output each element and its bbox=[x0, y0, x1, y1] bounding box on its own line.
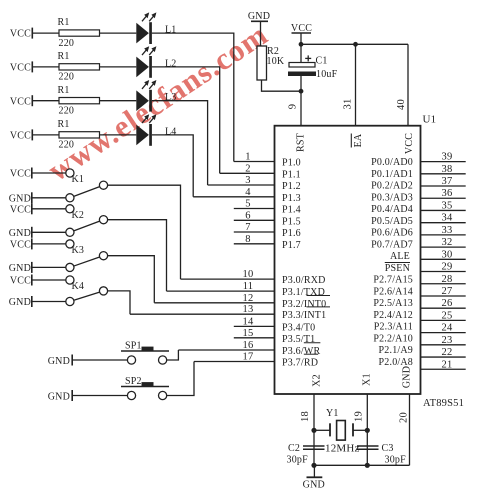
svg-text:P2.4/A12: P2.4/A12 bbox=[373, 310, 413, 321]
svg-text:P2.3/A11: P2.3/A11 bbox=[374, 322, 413, 333]
svg-text:GND: GND bbox=[9, 193, 31, 204]
pin 8 (P1.7) bbox=[234, 234, 301, 251]
svg-text:P3.4/T0: P3.4/T0 bbox=[282, 322, 315, 333]
wire SP2 to pin 17 bbox=[167, 362, 194, 396]
pin 30 (ALE) bbox=[390, 249, 466, 262]
pin 28 (P2.7/A15) bbox=[373, 274, 465, 286]
svg-text:GND: GND bbox=[401, 366, 412, 388]
wire K1 to pin 10 bbox=[108, 185, 181, 279]
wire K3 to pin 12 bbox=[108, 256, 155, 303]
svg-text:VCC: VCC bbox=[10, 240, 31, 251]
svg-text:9: 9 bbox=[288, 104, 299, 109]
svg-text:VCC: VCC bbox=[404, 133, 415, 154]
svg-text:R1: R1 bbox=[58, 17, 70, 28]
push button SP2 bbox=[121, 382, 169, 400]
svg-text:5: 5 bbox=[245, 199, 250, 210]
wire GND to K4 bbox=[33, 301, 66, 303]
VCC symbol (LED row 1) bbox=[10, 28, 32, 40]
wire LED L1 to pin 1 bbox=[152, 33, 234, 161]
VCC symbol (LED row 4) bbox=[10, 129, 32, 141]
LED L1 bbox=[136, 12, 156, 44]
svg-text:1: 1 bbox=[245, 152, 250, 163]
svg-text:SP1: SP1 bbox=[125, 341, 142, 352]
wire EA pin 31 bbox=[355, 44, 357, 125]
pin 13 (P3.3/INT1) bbox=[130, 304, 330, 321]
svg-text:25: 25 bbox=[442, 310, 453, 321]
svg-text:29: 29 bbox=[442, 262, 453, 273]
VCC symbol (LED row 2) bbox=[10, 61, 32, 73]
svg-text:X1: X1 bbox=[361, 373, 372, 386]
pin 23 (P2.2/A10) bbox=[373, 333, 465, 345]
wire R1 to LED L1 bbox=[100, 32, 137, 34]
wire VCC to K2 bbox=[33, 208, 66, 210]
pin 6 (P1.5) bbox=[234, 210, 301, 227]
svg-text:GND: GND bbox=[48, 392, 70, 403]
junction at EA branch bbox=[353, 42, 358, 47]
svg-text:16: 16 bbox=[243, 340, 254, 351]
junction C3 on rail bbox=[365, 463, 370, 468]
svg-text:38: 38 bbox=[442, 164, 453, 175]
svg-text:C2: C2 bbox=[288, 443, 300, 454]
svg-text:3: 3 bbox=[245, 175, 250, 186]
svg-text:10uF: 10uF bbox=[316, 69, 338, 80]
svg-text:P3.0/RXD: P3.0/RXD bbox=[282, 275, 326, 286]
capacitor C1 bbox=[288, 55, 316, 76]
GND symbol (K3) bbox=[9, 262, 32, 274]
wire X1 pin 19 bbox=[366, 394, 368, 465]
svg-text:VCC: VCC bbox=[10, 131, 31, 142]
svg-text:GND: GND bbox=[9, 297, 31, 308]
svg-text:P3.7/RD: P3.7/RD bbox=[282, 358, 318, 369]
port name EA with overline bbox=[351, 133, 364, 147]
resistor R1 (row 1) bbox=[59, 30, 100, 36]
wire VCC to R1 (row 4) bbox=[33, 134, 59, 136]
pin 3 (P1.2) bbox=[208, 175, 301, 192]
svg-text:33: 33 bbox=[442, 225, 453, 236]
pin 35 (P0.4/AD4) bbox=[371, 200, 466, 215]
pin 36 (P0.3/AD3) bbox=[371, 188, 466, 203]
microcontroller U1 AT89S51 body bbox=[275, 126, 421, 394]
svg-text:P2.2/A10: P2.2/A10 bbox=[373, 333, 413, 344]
LED L2 bbox=[136, 46, 156, 78]
wire C1 to RST pin 9 bbox=[300, 76, 302, 126]
wire K4 to pin 13 bbox=[108, 291, 130, 314]
svg-text:27: 27 bbox=[442, 286, 453, 297]
svg-text:R2: R2 bbox=[267, 46, 279, 57]
pin 7 (P1.6) bbox=[234, 222, 301, 239]
svg-text:P0.3/AD3: P0.3/AD3 bbox=[371, 192, 413, 203]
VCC rail to pins 31 and 40 bbox=[301, 43, 408, 45]
resistor R1 (row 4) bbox=[59, 132, 100, 138]
pin 34 (P0.5/AD5) bbox=[371, 213, 466, 227]
wire VCC to R1 (row 1) bbox=[33, 32, 59, 34]
svg-text:VCC: VCC bbox=[10, 204, 31, 215]
pin 32 (P0.7/AD7) bbox=[371, 237, 466, 250]
svg-text:L1: L1 bbox=[165, 25, 177, 36]
wire X2 pin 18 bbox=[313, 394, 315, 465]
pin 15 (P3.5/T1) bbox=[234, 328, 316, 345]
wire GND to SP1 bbox=[73, 359, 127, 361]
wire GND to SP2 bbox=[73, 395, 127, 397]
svg-text:K2: K2 bbox=[72, 210, 85, 221]
svg-text:GND: GND bbox=[9, 228, 31, 239]
pin 29 (PSEN) bbox=[385, 262, 466, 274]
svg-text:36: 36 bbox=[442, 188, 453, 199]
svg-text:18: 18 bbox=[300, 411, 311, 422]
pin 24 (P2.3/A11) bbox=[374, 322, 466, 334]
svg-text:220: 220 bbox=[59, 38, 75, 49]
svg-text:EA: EA bbox=[353, 133, 364, 147]
svg-text:P3.2/INT0: P3.2/INT0 bbox=[282, 299, 326, 310]
pin 21 (P2.0/A8) bbox=[379, 357, 466, 370]
junction X1 at crystal bbox=[365, 428, 370, 433]
svg-text:32: 32 bbox=[442, 237, 453, 248]
watermark www.elecfans.com bbox=[41, 17, 274, 188]
svg-text:11: 11 bbox=[243, 281, 254, 292]
svg-text:VCC: VCC bbox=[10, 276, 31, 287]
pin 4 (P1.3) bbox=[193, 187, 301, 204]
svg-text:P1.0: P1.0 bbox=[282, 158, 301, 169]
svg-text:P2.5/A13: P2.5/A13 bbox=[373, 298, 413, 309]
svg-text:8: 8 bbox=[245, 234, 250, 245]
VCC symbol (K1) bbox=[10, 168, 32, 180]
svg-text:P0.0/AD0: P0.0/AD0 bbox=[371, 157, 413, 168]
svg-text:10K: 10K bbox=[267, 56, 285, 67]
GND symbol (K2) bbox=[9, 227, 32, 239]
junction C2 on rail bbox=[311, 463, 316, 468]
svg-text:39: 39 bbox=[442, 152, 453, 163]
svg-text:35: 35 bbox=[442, 200, 453, 211]
pin 17 (P3.7/RD) bbox=[194, 352, 318, 369]
svg-text:P0.5/AD5: P0.5/AD5 bbox=[371, 216, 413, 227]
svg-text:30pF: 30pF bbox=[385, 455, 407, 466]
svg-text:P2.1/A9: P2.1/A9 bbox=[379, 345, 413, 356]
wire VCC to R1 (row 2) bbox=[33, 66, 59, 68]
svg-text:P0.2/AD2: P0.2/AD2 bbox=[371, 181, 413, 192]
svg-text:VCC: VCC bbox=[10, 96, 31, 107]
svg-text:K4: K4 bbox=[72, 281, 85, 292]
svg-text:P3.3/INT1: P3.3/INT1 bbox=[282, 310, 326, 321]
GND symbol (K4) bbox=[9, 296, 32, 308]
svg-text:VCC: VCC bbox=[10, 63, 31, 74]
svg-text:R1: R1 bbox=[58, 119, 70, 130]
svg-text:L4: L4 bbox=[165, 126, 177, 137]
svg-text:34: 34 bbox=[442, 213, 453, 224]
svg-text:K1: K1 bbox=[72, 174, 85, 185]
svg-text:Y1: Y1 bbox=[326, 408, 339, 419]
ground symbol (bottom) bbox=[303, 465, 325, 490]
svg-text:P2.0/A8: P2.0/A8 bbox=[379, 357, 413, 368]
svg-text:P0.7/AD7: P0.7/AD7 bbox=[371, 239, 413, 250]
svg-text:P0.1/AD1: P0.1/AD1 bbox=[371, 169, 413, 180]
wire R2 bottom to RST node bbox=[262, 80, 302, 91]
pin 5 (P1.4) bbox=[234, 199, 301, 216]
svg-text:RST: RST bbox=[296, 133, 307, 152]
svg-text:GND: GND bbox=[48, 356, 70, 367]
svg-text:220: 220 bbox=[59, 72, 75, 83]
svg-text:220: 220 bbox=[59, 140, 75, 151]
VCC symbol (K2) bbox=[10, 203, 32, 215]
svg-text:30pF: 30pF bbox=[287, 455, 309, 466]
pin 12 (P3.2/INT0) bbox=[154, 293, 330, 310]
svg-text:2: 2 bbox=[245, 163, 250, 174]
GND symbol (SP2) bbox=[48, 390, 72, 403]
svg-text:P1.1: P1.1 bbox=[282, 169, 301, 180]
pin 14 (P3.4/T0) bbox=[234, 316, 316, 333]
wire VCC down to C1 bbox=[300, 33, 302, 63]
wire R1 to LED L4 bbox=[100, 134, 137, 136]
switch K4 bbox=[66, 276, 108, 306]
pin 25 (P2.4/A12) bbox=[373, 310, 465, 322]
svg-text:17: 17 bbox=[243, 352, 254, 363]
ground GND (top of R2) bbox=[248, 11, 270, 46]
pin 16 (P3.6/WR) bbox=[178, 340, 320, 357]
VCC symbol (K4) bbox=[10, 275, 32, 287]
svg-text:R1: R1 bbox=[58, 51, 70, 62]
svg-text:12: 12 bbox=[243, 293, 254, 304]
wire GND to K1 bbox=[33, 197, 66, 199]
wire K2 to pin 11 bbox=[108, 220, 167, 291]
resistor R1 (row 3) bbox=[59, 98, 100, 104]
pin 26 (P2.5/A13) bbox=[373, 298, 465, 309]
VCC symbol (top) bbox=[291, 23, 312, 34]
wire R1 to LED L3 bbox=[100, 100, 137, 102]
resistor R1 (row 2) bbox=[59, 64, 100, 70]
capacitor C3 bbox=[357, 446, 379, 449]
resistor R2 bbox=[257, 46, 267, 80]
svg-text:P0.4/AD4: P0.4/AD4 bbox=[371, 204, 413, 215]
svg-text:U1: U1 bbox=[423, 114, 437, 126]
wire LED L2 to pin 2 bbox=[152, 67, 220, 173]
svg-text:P1.4: P1.4 bbox=[282, 205, 301, 216]
pin 27 (P2.6/A14) bbox=[373, 286, 465, 297]
wire GND pin 20 bbox=[409, 394, 411, 465]
pin 22 (P2.1/A9) bbox=[379, 345, 466, 358]
svg-text:P1.5: P1.5 bbox=[282, 216, 301, 227]
svg-text:26: 26 bbox=[442, 298, 453, 309]
switch K1 bbox=[66, 169, 108, 202]
VCC symbol (K3) bbox=[10, 238, 32, 250]
svg-text:31: 31 bbox=[343, 99, 354, 110]
wire VCC to K1 bbox=[33, 172, 66, 174]
svg-text:21: 21 bbox=[442, 359, 453, 370]
svg-text:P1.2: P1.2 bbox=[282, 181, 301, 192]
wire GND to K3 bbox=[33, 266, 66, 268]
svg-text:P3.1/TXD: P3.1/TXD bbox=[282, 287, 325, 298]
wire SP1 to pin 16 bbox=[167, 350, 179, 360]
svg-text:ALE: ALE bbox=[390, 251, 410, 262]
wire VCC to R1 (row 3) bbox=[33, 100, 59, 102]
svg-text:6: 6 bbox=[245, 210, 250, 221]
svg-text:37: 37 bbox=[442, 176, 453, 187]
svg-text:P3.6/WR: P3.6/WR bbox=[282, 346, 320, 357]
svg-text:P2.6/A14: P2.6/A14 bbox=[373, 286, 413, 297]
svg-text:VCC: VCC bbox=[10, 169, 31, 180]
crystal Y1 bbox=[314, 421, 367, 441]
svg-text:GND: GND bbox=[248, 11, 270, 22]
svg-text:28: 28 bbox=[442, 274, 453, 285]
pin 1 (P1.0) bbox=[234, 152, 301, 169]
pin 33 (P0.6/AD6) bbox=[371, 225, 466, 239]
VCC symbol (LED row 3) bbox=[10, 95, 32, 107]
svg-text:15: 15 bbox=[243, 328, 254, 339]
pin 38 (P0.1/AD1) bbox=[371, 164, 466, 180]
svg-text:K3: K3 bbox=[72, 245, 85, 256]
svg-text:VCC: VCC bbox=[10, 29, 31, 40]
svg-text:P1.7: P1.7 bbox=[282, 240, 301, 251]
GND symbol (K1) bbox=[9, 192, 32, 204]
junction X2 at crystal bbox=[311, 428, 316, 433]
wire VCC to K3 bbox=[33, 243, 66, 245]
LED L4 bbox=[136, 114, 156, 146]
svg-text:L3: L3 bbox=[165, 92, 177, 103]
wire GND to K2 bbox=[33, 231, 66, 233]
svg-text:C1: C1 bbox=[316, 56, 328, 67]
svg-text:24: 24 bbox=[442, 323, 453, 334]
svg-text:14: 14 bbox=[243, 316, 254, 327]
pin 39 (P0.0/AD0) bbox=[371, 152, 466, 168]
GND symbol (SP1) bbox=[48, 355, 72, 368]
svg-text:L2: L2 bbox=[165, 58, 177, 69]
pin 10 (P3.0/RXD) bbox=[181, 269, 326, 286]
pin 37 (P0.2/AD2) bbox=[371, 176, 466, 191]
svg-text:GND: GND bbox=[303, 479, 325, 490]
svg-text:20: 20 bbox=[399, 412, 410, 423]
svg-text:P1.6: P1.6 bbox=[282, 228, 301, 239]
wire VCC to K4 bbox=[33, 279, 66, 281]
junction on VCC rail bbox=[299, 42, 304, 47]
svg-text:220: 220 bbox=[59, 106, 75, 117]
svg-text:R1: R1 bbox=[58, 85, 70, 96]
pin 11 (P3.1/TXD) bbox=[167, 281, 326, 298]
svg-text:22: 22 bbox=[442, 347, 453, 358]
switch K3 bbox=[66, 240, 108, 272]
capacitor C2 bbox=[303, 446, 325, 449]
svg-text:13: 13 bbox=[243, 304, 254, 315]
svg-text:X2: X2 bbox=[311, 374, 322, 387]
wire VCC pin 40 bbox=[407, 44, 409, 125]
wire LED L4 to pin 4 bbox=[152, 135, 193, 197]
bottom ground rail bbox=[314, 464, 410, 466]
switch K2 bbox=[66, 205, 108, 237]
svg-text:19: 19 bbox=[354, 411, 365, 422]
LED L3 bbox=[136, 80, 156, 112]
svg-text:P1.3: P1.3 bbox=[282, 193, 301, 204]
svg-text:P0.6/AD6: P0.6/AD6 bbox=[371, 228, 413, 239]
svg-text:12MHz: 12MHz bbox=[325, 443, 360, 455]
svg-text:C3: C3 bbox=[382, 443, 394, 454]
push button SP1 bbox=[121, 347, 169, 365]
svg-text:10: 10 bbox=[243, 269, 254, 280]
wire R1 to LED L2 bbox=[100, 66, 137, 68]
junction RST node bbox=[299, 89, 304, 94]
svg-text:GND: GND bbox=[9, 263, 31, 274]
svg-text:AT89S51: AT89S51 bbox=[423, 398, 464, 409]
svg-text:4: 4 bbox=[245, 187, 251, 198]
svg-text:7: 7 bbox=[245, 222, 250, 233]
svg-text:40: 40 bbox=[396, 99, 407, 110]
pin 2 (P1.1) bbox=[220, 163, 301, 180]
svg-text:P2.7/A15: P2.7/A15 bbox=[373, 275, 413, 286]
svg-text:23: 23 bbox=[442, 335, 453, 346]
svg-text:PSEN: PSEN bbox=[385, 263, 410, 274]
svg-text:30: 30 bbox=[442, 249, 453, 260]
svg-text:SP2: SP2 bbox=[125, 376, 142, 387]
wire LED L3 to pin 3 bbox=[152, 101, 208, 185]
